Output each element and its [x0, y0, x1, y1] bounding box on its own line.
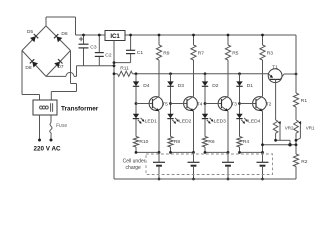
potentiometer VR1 [294, 120, 299, 133]
transistor T5 [149, 97, 163, 111]
svg-text:R3: R3 [267, 51, 274, 57]
wire emitter column stage 1 [158, 111, 160, 152]
svg-text:220 V AC: 220 V AC [34, 146, 62, 153]
right rail [295, 35, 297, 93]
wire bridge minus with crossover hop [46, 75, 66, 77]
svg-text:Transformer: Transformer [61, 106, 99, 113]
transformer [33, 100, 57, 115]
svg-text:T3: T3 [231, 101, 237, 107]
transistor T2 [253, 97, 267, 111]
IC1 common pin / common vertical wire [113, 41, 115, 180]
transistor T4 [184, 97, 198, 111]
wire stage 2 bottom junction [171, 151, 194, 153]
svg-text:R1: R1 [301, 98, 308, 104]
resistor R11 [114, 73, 118, 75]
node T1 collector to right rail [295, 73, 298, 76]
wire stage 3 bottom junction [205, 151, 228, 153]
svg-text:C3: C3 [90, 44, 97, 50]
svg-text:R5: R5 [232, 51, 239, 57]
svg-text:Cell under: Cell under [123, 158, 146, 164]
wire stage 4 bottom junction [240, 151, 263, 153]
bias line across stages [136, 73, 268, 75]
LED LED2 [167, 114, 173, 119]
wire emitter column stage 2 [193, 111, 195, 152]
svg-text:T2: T2 [266, 101, 272, 107]
wire stage 1 chain [135, 74, 137, 137]
node: DC minus line to common [77, 65, 115, 67]
svg-text:R4: R4 [243, 139, 250, 145]
svg-text:LED4: LED4 [248, 118, 261, 124]
svg-text:R9: R9 [163, 51, 170, 57]
op-amp/regulator IC1 [105, 31, 125, 41]
battery cell 1 [158, 152, 160, 162]
diode D3 [167, 81, 173, 86]
wire VR2 bottom node [276, 139, 290, 141]
svg-text:D7: D7 [57, 64, 64, 70]
resistor R9 [158, 35, 160, 45]
svg-text:D4: D4 [143, 83, 150, 89]
wire emitter column stage 3 [227, 111, 229, 152]
bridge rectifier diamond wires [22, 26, 46, 51]
resistor R8 [168, 137, 173, 148]
svg-text:C1: C1 [137, 50, 144, 56]
svg-text:D5: D5 [27, 29, 34, 35]
resistor R3 [262, 35, 264, 45]
diode D2 [202, 81, 208, 86]
svg-text:D6: D6 [61, 31, 68, 37]
svg-text:R7: R7 [198, 51, 205, 57]
svg-text:LED1: LED1 [145, 118, 158, 124]
node stage 1 base tap [135, 102, 138, 105]
wire stage 2 chain [170, 74, 172, 137]
wire collector column stage 3 [227, 60, 229, 96]
dashed box cells under charge [146, 154, 273, 175]
svg-text:T4: T4 [197, 101, 203, 107]
top rail [76, 34, 106, 36]
LED LED4 [236, 114, 242, 119]
svg-text:LED2: LED2 [179, 118, 192, 124]
capacitor C3 [83, 35, 85, 44]
diode D4 [133, 81, 139, 86]
node stage 2 base tap [169, 102, 172, 105]
resistor R5 [227, 35, 229, 45]
wire bridge left AC to transformer [21, 51, 23, 95]
wire bridge+ to top rail [45, 17, 47, 26]
LED LED1 [133, 114, 139, 119]
AC terminal left [38, 139, 41, 142]
battery cell 4 [262, 152, 264, 162]
wire stage 3 chain [204, 74, 206, 137]
svg-text:IC1: IC1 [110, 34, 120, 40]
bridge diode D5 [30, 36, 36, 42]
bridge diode D6 [56, 36, 62, 42]
svg-text:R6: R6 [208, 139, 215, 145]
bridge diode D8 [32, 62, 38, 68]
wire stage 1 bottom junction [136, 151, 159, 153]
wire primary right [50, 115, 52, 123]
wire collector column stage 1 [158, 60, 160, 96]
wire T1 base to VR2 [275, 79, 277, 120]
AC terminal right [50, 139, 53, 142]
node stage 4 base tap [238, 102, 241, 105]
wire stage 4 chain [239, 74, 241, 137]
LED LED3 [202, 114, 208, 119]
resistor R10 [133, 137, 138, 148]
diode D1 [236, 81, 242, 86]
resistor R4 [237, 137, 242, 148]
potentiometer VR2 [273, 120, 278, 133]
capacitor C2 [98, 35, 100, 53]
wire C1 bottom to common [114, 62, 131, 64]
bridge diode D7 [54, 62, 60, 68]
node stage 2 chain top [169, 72, 172, 75]
wire collector column stage 4 [262, 60, 264, 96]
wire emitter T2 to R2 node [263, 144, 297, 146]
transistor T1 [268, 69, 282, 83]
battery cell 2 [193, 152, 195, 162]
svg-text:LED3: LED3 [214, 118, 227, 124]
wire collector column stage 2 [193, 60, 195, 96]
svg-text:VR2: VR2 [285, 125, 294, 130]
svg-text:R10: R10 [139, 139, 148, 145]
resistor R2 [293, 154, 298, 167]
node stage 1 chain top [135, 72, 138, 75]
wire primary left [39, 115, 41, 139]
wire bridge right AC to transformer (with jog) [70, 51, 72, 84]
resistor R6 [202, 137, 207, 148]
svg-text:C2: C2 [105, 53, 112, 59]
bottom rail [114, 178, 296, 180]
node stage 4 chain top [238, 72, 241, 75]
svg-text:charge: charge [126, 165, 142, 171]
capacitor C1 [130, 35, 132, 50]
svg-text:R11: R11 [120, 66, 129, 72]
wire emitter column stage 4 [262, 111, 264, 152]
resistor R1 [293, 93, 298, 107]
svg-text:D8: D8 [25, 65, 32, 71]
node stage 3 chain top [204, 72, 207, 75]
svg-text:D1: D1 [247, 83, 254, 89]
node stage 3 base tap [204, 102, 207, 105]
svg-text:D3: D3 [178, 83, 185, 89]
battery cell 3 [227, 152, 229, 162]
svg-text:T1: T1 [272, 64, 278, 70]
transistor T3 [218, 97, 232, 111]
svg-text:T5: T5 [162, 101, 168, 107]
svg-text:R8: R8 [174, 139, 181, 145]
fuse [50, 123, 52, 135]
svg-text:VR1: VR1 [306, 125, 315, 130]
resistor R7 [193, 35, 195, 45]
svg-text:D2: D2 [212, 83, 219, 89]
svg-text:Fuse: Fuse [56, 123, 67, 129]
svg-text:R2: R2 [301, 159, 308, 165]
